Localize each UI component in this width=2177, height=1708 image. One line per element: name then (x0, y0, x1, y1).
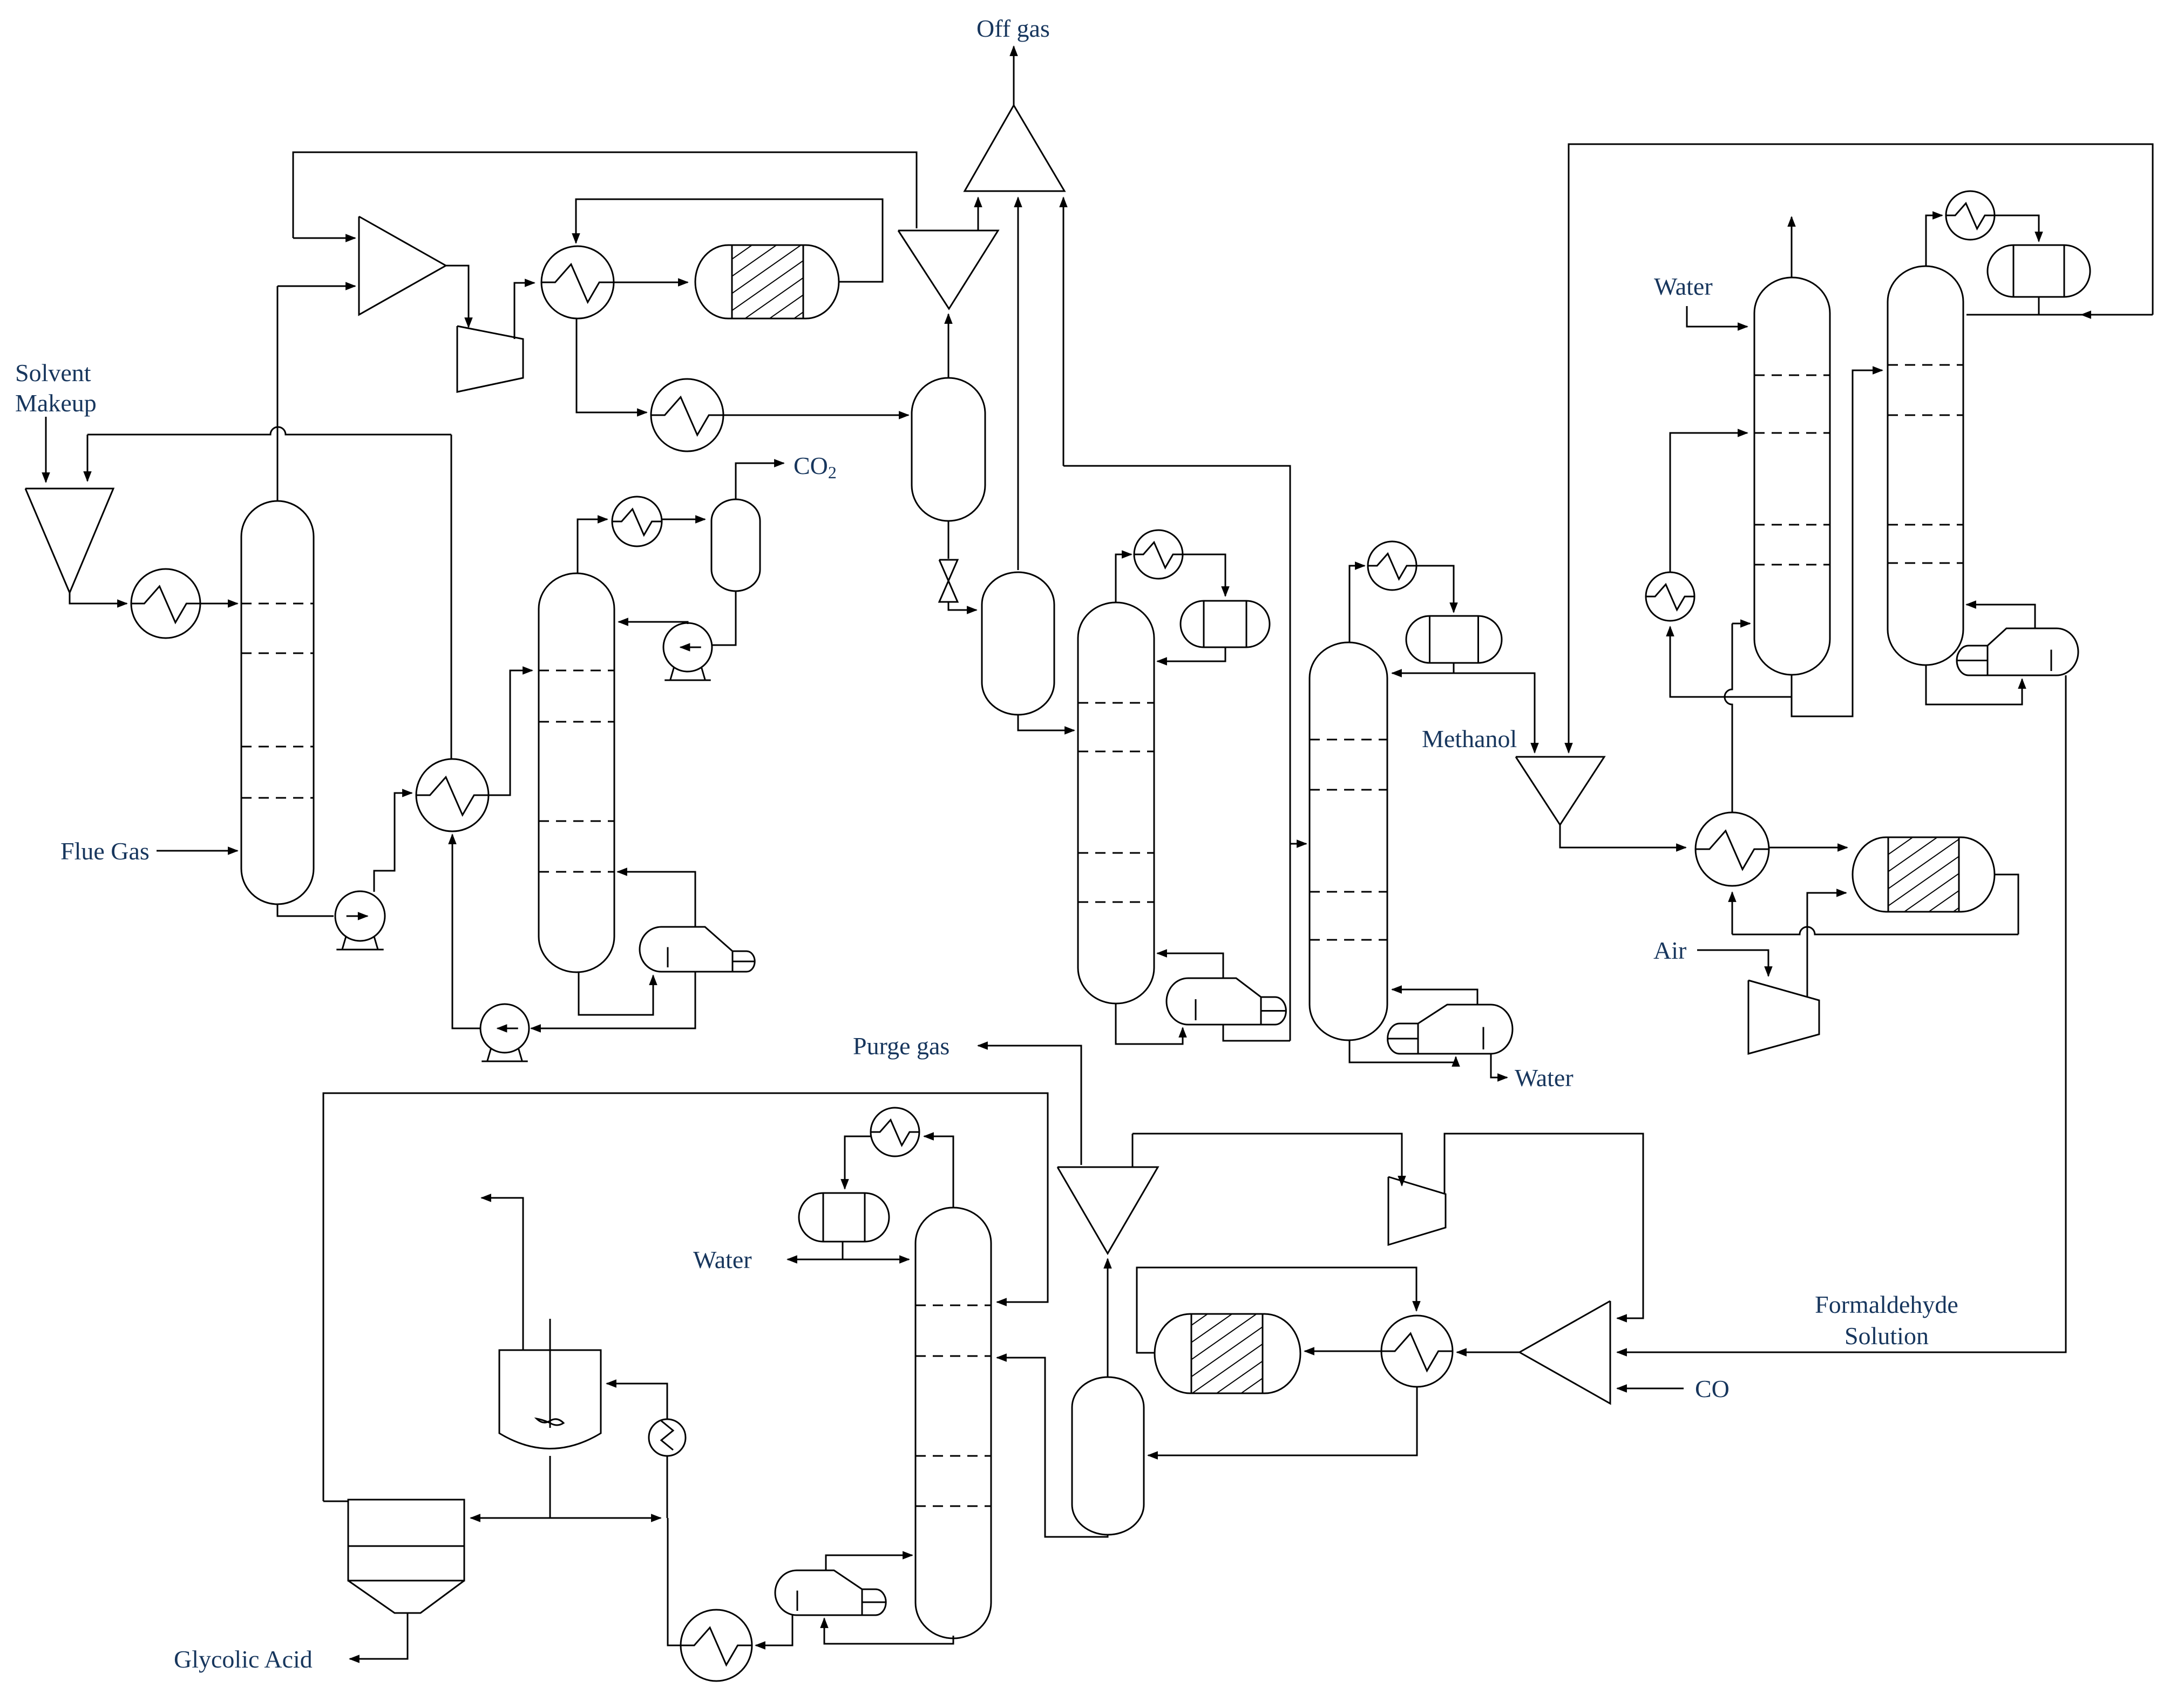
wire: E-8 vapor return to C-3 (1157, 953, 1223, 978)
column C-1 (CO2 absorber) (241, 501, 314, 904)
wire: T-6 outlet to feed/effluent exchanger E-16 (1560, 825, 1686, 848)
wire: V-3 liquid to reflux pump P-3 (700, 591, 736, 645)
wire: off-gas vent arrow (1013, 46, 1015, 105)
stream label: CO (1695, 1375, 1730, 1402)
wire: V-1 liquid to letdown valve (948, 521, 950, 559)
stream label: Water (C-7 overhead) (693, 1246, 752, 1273)
wire: settler recycle loop to column C-7 upper feed (323, 1093, 1048, 1501)
settler S-1 (crystallizer/clarifier) (348, 1500, 464, 1613)
reactor R-2 (formaldehyde, packed bed) (1853, 837, 1995, 912)
wire: R-2 effluent loop back through E-16 (1732, 875, 2018, 934)
wire: E-17 return to C-5 (1670, 433, 1747, 573)
wire: junction to settler S-1 (471, 1517, 550, 1519)
column C-6 (methanol/formaldehyde distillation) (1888, 266, 1963, 665)
wire: CO feed into T-5 (1617, 1388, 1684, 1390)
wire: E-12 outlet into reflux drum V-7 (845, 1136, 871, 1189)
heat exchanger E-4 (lean/rich interchanger) (416, 759, 489, 831)
mixer triangle T-1 (recycle gas mixer) (359, 216, 446, 315)
wire: E-8 liquid up to C-4 feed junction (1223, 1025, 1290, 1041)
wire: settler top tie-in (323, 1501, 348, 1502)
pump P-3 (CO2 column reflux) (663, 623, 712, 680)
pump P-1 (rich solvent) (335, 891, 385, 950)
wire: C-1 bottoms to pump P-1 (277, 904, 334, 916)
wire: C-5 bottoms to distillation column C-6 feed (1792, 370, 1882, 716)
stream label: Water (C-4 bottoms) (1515, 1064, 1574, 1092)
wire: C-2 bottoms into reboiler kettle E-6 (579, 972, 653, 1015)
wire: E-1 outlet to absorber C-1 top feed (200, 603, 238, 605)
wire: V-7 water product (788, 1242, 843, 1259)
wire: T-1 outlet down to compressor K-1 (446, 266, 469, 327)
wire: T-5 outlet to E-11 (1457, 1352, 1520, 1353)
wire: C-4 overhead to condenser E-9 (1349, 566, 1365, 642)
column C-4 (methanol column) (1310, 642, 1387, 1040)
vessel V-6 (gas-liquid separator) (1072, 1377, 1144, 1535)
stream label: Solvent Makeup (15, 359, 97, 417)
wire: E-13 vapor return to C-7 (826, 1555, 912, 1570)
wire: R-4 vapor vent (481, 1198, 523, 1350)
heat exchanger E-14 (crystallizer cooler) (681, 1610, 752, 1681)
column C-3 (first distillation column) (1078, 602, 1154, 1004)
wire: V-6 liquid to column C-7 lower feed (997, 1358, 1108, 1537)
wire: R-1 effluent loop back to E-2 top (576, 199, 883, 282)
wire: reflux into C-6 (1966, 314, 2153, 316)
wire: purge branch from T-3 junction to methanol column C-4 feed (1063, 466, 1306, 1041)
svg-text:Formaldehyde: Formaldehyde (1815, 1291, 1958, 1318)
wire: E-6 liquid to lean solvent pump P-2 (531, 972, 695, 1028)
pump P-2 (lean solvent) (480, 1004, 529, 1061)
reactor R-1 (catalytic, packed bed) (695, 245, 839, 318)
wire: V-5 liquid reflux to C-4 (1392, 663, 1454, 673)
svg-text:Air: Air (1653, 937, 1686, 964)
wire: K-3 discharge loop into mixer T-5 (1444, 1134, 1643, 1318)
wire: C-6 overhead to condenser E-18 (1926, 215, 1942, 266)
wire: water feed into absorber C-5 (1687, 306, 1747, 327)
wire: solvent header down into E-4 top (451, 435, 452, 759)
svg-text:Makeup: Makeup (15, 389, 97, 417)
wire: E-7 outlet into reflux drum V-4 (1183, 554, 1225, 596)
wire: P-1 discharge to lean/rich exchanger E-4 (374, 793, 412, 892)
wire: E-10 vapor return to C-4 (1392, 989, 1477, 1005)
wire: P-2 discharge up through E-4 to header (452, 835, 480, 1028)
wire: C-2 overhead to condenser E-5 (578, 519, 607, 573)
wire: water from E-10 (1491, 1054, 1507, 1077)
svg-text:Water: Water (693, 1246, 752, 1273)
wire: C-4 bottoms into kettle E-10 (1349, 1040, 1456, 1062)
stream label: Flue Gas (60, 837, 150, 865)
wire: methanol recycle top loop (y=267) (1569, 144, 2153, 753)
heat exchanger E-12 (C-7 condenser) (871, 1108, 919, 1156)
wire: E-11 to R-3 inlet (1305, 1351, 1381, 1352)
wire: methanol distillate to mixer funnel T-6 (1454, 673, 1535, 753)
heat exchanger E-17 (C-5 reboiler) (1646, 572, 1694, 621)
svg-text:Water: Water (1654, 273, 1713, 300)
drum V-8 (C-6 reflux drum) (1988, 245, 2090, 297)
heat exchanger E-2 (reactor feed/effluent) (541, 246, 614, 318)
compressor K-2 (air) (1748, 980, 1819, 1054)
stirred tank reactor R-4 (CSTR) (499, 1319, 601, 1449)
wire: purge gas from funnel T-4 (978, 1046, 1081, 1165)
wire: E-2 outlet to reactor R-1 (614, 282, 688, 283)
wire: C-5 bottoms split to reboiler E-17 (1670, 627, 1792, 697)
heat exchanger E-18 (C-6 condenser) (1946, 191, 1995, 240)
wire: valve outlet into flash drum V-2 (948, 602, 976, 610)
wire: E-19 vapor return to C-6 (1966, 605, 2035, 628)
wire: E-9 outlet into reflux drum V-5 (1416, 566, 1454, 612)
wire: T-4 vent to recycle compressor header (1132, 1134, 1134, 1167)
svg-text:Water: Water (1515, 1064, 1574, 1092)
column C-7 (glycolic acid recovery column) (915, 1208, 991, 1638)
separator funnel T-2 (898, 231, 998, 309)
wire: solvent makeup feed into mixer funnel F1 (45, 417, 47, 482)
wire: P-3 discharge reflux into C-2 (619, 622, 688, 624)
kettle reboiler E-6 (stripper) (640, 927, 755, 972)
kettle evaporator E-13 (C-7 reboiler) (775, 1570, 886, 1615)
wire: T-2 vapor to off-gas collector T-3 (978, 198, 979, 231)
column C-5 (formaldehyde absorber) (1754, 277, 1830, 675)
wire: E-13 liquid to crystallizer exchanger E-14 (756, 1615, 792, 1645)
compressor K-3 (recycle gas) (1388, 1177, 1446, 1245)
wire: C-6 bottoms into kettle E-19 (1926, 665, 2022, 704)
heat exchanger E-5 (CO2 condenser) (612, 497, 662, 546)
funnel T-4 (recycle gas separator) (1057, 1167, 1158, 1253)
wire: arrow into mixer T-1 upper inlet (293, 238, 355, 239)
stream label: Air (1653, 937, 1686, 964)
wire: R-4 bottoms to junction (550, 1456, 551, 1518)
vessel V-2 (flash drum) (982, 572, 1054, 715)
wire: C-5 off-gas vent (1791, 217, 1793, 277)
wire: C-3 bottoms into kettle E-8 (1116, 1004, 1183, 1044)
kettle reboiler E-19 (C-6, mirrored) (1957, 628, 2078, 675)
wire: V-4 liquid reflux to C-3 (1157, 647, 1225, 661)
wire: air feed to compressor K-2 (1697, 950, 1768, 976)
wire: top recycle loop (y=282) from T-1 area to separator T-2 (293, 152, 917, 238)
compressor K-1 (recycle gas) (457, 326, 523, 392)
wire: flue gas feed into absorber C-1 (157, 850, 238, 852)
wire: C-7 overhead to condenser E-12 (924, 1136, 953, 1208)
heat exchanger E-1 (solvent cooler) (131, 569, 200, 638)
reactor R-3 (carbonylation, packed bed) (1155, 1314, 1300, 1393)
wire: E-5 outlet into CO2 KO drum V-3 (662, 519, 705, 520)
vessel V-1 (knock-out drum) (912, 378, 985, 521)
stream label: Methanol (1422, 725, 1517, 753)
wire: V-6 vapor up into T-4 (1107, 1259, 1109, 1377)
wire: E-6 vapor return to C-2 (618, 872, 695, 927)
wire: C-7 bottoms into evaporator E-13 (824, 1618, 953, 1644)
mixer funnel T-6 (methanol mixer) (1516, 757, 1604, 825)
svg-text:Glycolic Acid: Glycolic Acid (174, 1645, 313, 1673)
wire: CO2 product line (736, 463, 784, 499)
wire: purge branch riser into T-3 (1063, 198, 1064, 466)
kettle reboiler E-8 (C-3) (1167, 978, 1286, 1025)
drum V-4 (C-3 reflux drum) (1181, 601, 1270, 647)
wire: E-16 outlet to reactor R-2 (1769, 847, 1847, 849)
wire: E-18 outlet into reflux drum V-8 (1995, 215, 2039, 241)
mixer funnel F1 (solvent) (25, 489, 113, 593)
wire: V-8 liquid down to reflux/recycle header (2038, 297, 2040, 315)
wire: V-2 vapor to T-3 (1018, 198, 1019, 570)
wire: recycle header to compressor K-3 (1132, 1134, 1402, 1185)
mixer triangle T-5 (CO/formaldehyde feed mixer) (1520, 1301, 1610, 1404)
svg-text:Solvent: Solvent (15, 359, 91, 387)
wire: feed into R-4 from exchanger E-15 (607, 1384, 667, 1419)
column C-2 (solvent stripper) (539, 573, 614, 972)
heat exchanger E-11 (recycle cooler) (1381, 1316, 1453, 1387)
wire: junction to E-14 circuit (550, 1517, 661, 1519)
stream label: Water (absorber feed) (1654, 273, 1713, 300)
wire: R-3 outlet loop to exchanger E-11 top (1137, 1268, 1416, 1353)
heat exchanger E-3 (effluent cooler) (651, 379, 723, 451)
wire: E-16 top outlet riser to absorber C-5 (1725, 623, 1750, 812)
stream label: Formaldehyde Solution (1815, 1291, 1958, 1350)
svg-text:CO: CO (1695, 1375, 1730, 1402)
drum V-7 (C-7 reflux drum) (799, 1193, 889, 1242)
stream label: CO2 (794, 452, 837, 482)
heat exchanger E-9 (C-4 condenser) (1368, 541, 1416, 590)
wire: lean solvent recycle header (y=805) into funnel F1 (87, 427, 451, 481)
svg-text:Methanol: Methanol (1422, 725, 1517, 753)
svg-text:Off gas: Off gas (976, 15, 1050, 42)
svg-text:Flue Gas: Flue Gas (60, 837, 150, 865)
off-gas collector triangle T-3 (965, 105, 1064, 191)
heat exchanger E-16 (feed/effluent interchanger) (1696, 812, 1769, 886)
wire: glycolic acid product (350, 1613, 408, 1659)
wire: K-2 discharge to R-2 (1807, 893, 1846, 998)
drum V-5 (C-4 reflux drum) (1406, 616, 1502, 663)
wire: C-1 overhead recycle to mixer T-1 (277, 286, 355, 501)
wire: E-4 outlet up to stripper C-2 feed (489, 670, 532, 795)
svg-text:Purge gas: Purge gas (853, 1032, 950, 1060)
wire: riser from E-14 to E-15 (667, 1456, 681, 1645)
wire: K-1 discharge to heat exchanger E-2 (514, 283, 534, 339)
wire: formaldehyde solution to mixer T-5 (1617, 675, 2066, 1352)
wire: C-3 overhead to condenser E-7 (1116, 554, 1131, 602)
svg-text:Solution: Solution (1844, 1322, 1929, 1350)
kettle reboiler E-10 (C-4, mirrored) (1388, 1005, 1513, 1054)
valve VLV-1 (letdown) (939, 560, 958, 602)
heat exchanger E-15 (small heater) (649, 1419, 686, 1456)
heat exchanger E-7 (C-3 condenser) (1134, 530, 1183, 579)
stream label: Off gas (976, 15, 1050, 42)
stream label: Purge gas (853, 1032, 950, 1060)
wire: F1 outlet to heat exchanger E-1 (70, 593, 127, 604)
vessel V-3 (CO2 knock-out drum) (711, 499, 760, 591)
stream label: Glycolic Acid (174, 1645, 313, 1673)
wire: V-1 vapor up into separator funnel T-2 (948, 314, 950, 378)
wire: E-2 bottom outlet to cooler E-3 (577, 318, 647, 412)
wire: E-11 bottom outlet to V-6 (1148, 1387, 1417, 1455)
wire: V-2 liquid to solvent stripper C-2 feed (1018, 715, 1074, 730)
wire: E-3 outlet to KO drum V-1 (723, 415, 908, 416)
wire: V-7 reflux to C-7 (843, 1259, 909, 1260)
